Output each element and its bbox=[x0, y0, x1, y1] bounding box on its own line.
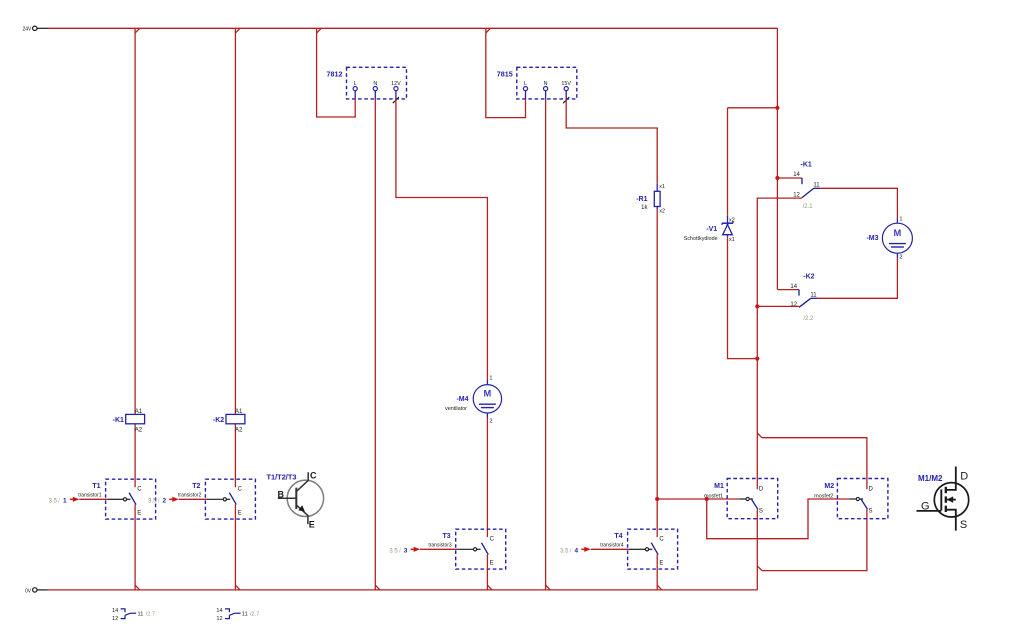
svg-text:A2: A2 bbox=[235, 427, 243, 434]
wire K1 pin11 to motor M3 top bbox=[821, 188, 898, 219]
svg-text:3: 3 bbox=[404, 548, 408, 555]
svg-text:C: C bbox=[238, 487, 243, 493]
node gate tee bbox=[705, 497, 709, 501]
svg-text:12: 12 bbox=[112, 616, 118, 622]
svg-text:11: 11 bbox=[813, 182, 820, 188]
svg-text:Schottkydiode: Schottkydiode bbox=[684, 236, 718, 242]
svg-text:2: 2 bbox=[899, 255, 902, 261]
svg-text:3.5: 3.5 bbox=[148, 498, 157, 504]
svg-text:M1: M1 bbox=[714, 483, 724, 490]
svg-text:T1/T2/T3: T1/T2/T3 bbox=[267, 473, 297, 482]
svg-text:1k: 1k bbox=[641, 205, 648, 211]
svg-text:14: 14 bbox=[793, 172, 800, 178]
svg-text:-K1: -K1 bbox=[801, 161, 812, 168]
motor M3 bbox=[866, 217, 912, 261]
wire V1 bottom to drain column bbox=[728, 236, 760, 360]
svg-text:E: E bbox=[309, 520, 315, 530]
svg-text:C: C bbox=[310, 470, 317, 480]
wire 24V to 7815 L input bbox=[486, 28, 526, 117]
motor M4 ventilator bbox=[445, 376, 502, 425]
node 24V supply terminal bbox=[23, 26, 48, 33]
contact K1 changeover bbox=[775, 161, 820, 210]
wire K1 pin12 to drain column bbox=[757, 198, 802, 306]
svg-text:transistor3: transistor3 bbox=[428, 542, 452, 548]
svg-text:D: D bbox=[869, 487, 874, 493]
svg-text:3.5: 3.5 bbox=[389, 548, 398, 554]
svg-text:14: 14 bbox=[112, 608, 118, 614]
wire 7815 N to 0V bbox=[546, 99, 551, 590]
svg-text:E: E bbox=[238, 511, 242, 517]
wire M4 to T3 collector bbox=[486, 417, 488, 537]
svg-text:T2: T2 bbox=[192, 483, 200, 490]
svg-text:/2.7: /2.7 bbox=[250, 611, 259, 617]
svg-text:S: S bbox=[759, 509, 763, 515]
voltage regulator U7812 bbox=[327, 67, 407, 103]
svg-text:E: E bbox=[137, 511, 141, 517]
svg-text:A1: A1 bbox=[135, 408, 143, 415]
wire R1 to mosfet gates node bbox=[656, 209, 658, 537]
svg-text:transistor2: transistor2 bbox=[178, 492, 202, 498]
wire branch K2-coil column bbox=[235, 28, 240, 590]
svg-text:C: C bbox=[137, 487, 142, 493]
svg-text:/2.7: /2.7 bbox=[146, 611, 155, 617]
svg-text:D: D bbox=[960, 471, 968, 483]
wire 24V top rail bbox=[48, 27, 778, 29]
svg-text:A2: A2 bbox=[135, 427, 143, 434]
svg-text:C: C bbox=[659, 537, 664, 543]
svg-text:/2.2: /2.2 bbox=[803, 316, 814, 322]
svg-text:S: S bbox=[869, 509, 873, 515]
wire to diode V1 top bbox=[728, 106, 780, 110]
svg-text:1: 1 bbox=[489, 376, 492, 382]
svg-text:11: 11 bbox=[810, 292, 817, 298]
contact K1 aux cross-reference bbox=[112, 608, 155, 622]
transistor T4 bbox=[560, 529, 678, 569]
wire branch K1-coil column bbox=[135, 28, 140, 590]
svg-text:-R1: -R1 bbox=[636, 196, 647, 203]
svg-text:D: D bbox=[759, 487, 764, 493]
wire T4 emitter to 0V bbox=[657, 554, 662, 590]
svg-text:24V: 24V bbox=[23, 27, 33, 33]
svg-text:-V1: -V1 bbox=[706, 226, 717, 233]
svg-text:/2.1: /2.1 bbox=[803, 204, 814, 210]
svg-text:x1: x1 bbox=[729, 237, 735, 243]
svg-text:M: M bbox=[894, 228, 902, 238]
svg-text:T3: T3 bbox=[443, 533, 451, 540]
mosfet legend M1/M2 pinout bbox=[917, 467, 969, 532]
svg-text:7812: 7812 bbox=[327, 70, 343, 79]
svg-text:3.5: 3.5 bbox=[560, 548, 569, 554]
wire 7812 12V output to M4 branch bbox=[396, 99, 488, 380]
svg-text:4: 4 bbox=[575, 548, 579, 555]
wire T3 emitter to 0V bbox=[487, 554, 492, 590]
svg-text:T4: T4 bbox=[614, 533, 622, 540]
svg-text:12: 12 bbox=[790, 302, 797, 308]
svg-text:0V: 0V bbox=[25, 588, 32, 594]
contact K2 aux cross-reference bbox=[216, 608, 259, 622]
svg-text:1: 1 bbox=[899, 217, 902, 223]
svg-text:11: 11 bbox=[138, 612, 144, 618]
wire 7815 15V output to R1 bbox=[566, 99, 657, 184]
svg-text:x2: x2 bbox=[729, 218, 735, 224]
transistor legend T1/T2/T3 pinout bbox=[267, 470, 324, 529]
wire M3 bottom to K2 pin11 bbox=[818, 258, 898, 299]
svg-text:-M4: -M4 bbox=[456, 396, 468, 403]
voltage regulator U7815 bbox=[497, 67, 577, 103]
wire M1 source to 0V end bbox=[757, 509, 867, 590]
svg-text:E: E bbox=[490, 561, 494, 567]
svg-text:M2: M2 bbox=[824, 483, 834, 490]
svg-text:S: S bbox=[960, 519, 967, 531]
transistor T2 bbox=[148, 479, 255, 519]
svg-text:-M3: -M3 bbox=[866, 235, 878, 242]
svg-text:C: C bbox=[490, 537, 495, 543]
svg-text:x1: x1 bbox=[659, 184, 665, 190]
svg-text:-K2: -K2 bbox=[213, 417, 224, 424]
wire K2 pin12 junction bbox=[755, 304, 799, 308]
transistor T3 bbox=[389, 529, 505, 569]
svg-text:E: E bbox=[659, 561, 663, 567]
svg-text:11: 11 bbox=[242, 612, 248, 618]
mosfet M1 bbox=[704, 479, 778, 519]
wire 7812 N to 0V bbox=[375, 99, 380, 590]
svg-text:1: 1 bbox=[63, 498, 67, 505]
wire 24V to 7812 L input bbox=[317, 28, 356, 117]
svg-text:3.5: 3.5 bbox=[49, 498, 58, 504]
svg-text:14: 14 bbox=[790, 284, 797, 290]
svg-text:12: 12 bbox=[216, 616, 222, 622]
wire gate loop to M2 gate bbox=[707, 499, 850, 539]
mosfet M2 bbox=[814, 479, 888, 519]
node 0V supply terminal bbox=[25, 588, 48, 595]
svg-text:ventilator: ventilator bbox=[445, 406, 467, 412]
wire gate node to M1 gate bbox=[657, 498, 739, 500]
diode V1 Schottkydiode bbox=[684, 108, 735, 243]
svg-text:-K1: -K1 bbox=[113, 417, 124, 424]
svg-text:2: 2 bbox=[163, 498, 167, 505]
svg-text:T1: T1 bbox=[92, 483, 100, 490]
wire 24V rail drop to contact column bbox=[776, 28, 778, 289]
svg-text:M1/M2: M1/M2 bbox=[918, 474, 943, 483]
relay coil K1 bbox=[113, 408, 145, 433]
svg-text:7815: 7815 bbox=[497, 70, 513, 79]
transistor T1 bbox=[49, 479, 156, 519]
svg-text:2: 2 bbox=[489, 419, 492, 425]
wire drain column to M1 and M2 bbox=[757, 306, 867, 489]
svg-text:M: M bbox=[484, 389, 492, 399]
svg-text:x2: x2 bbox=[659, 209, 665, 215]
resistor R1 1k bbox=[636, 184, 665, 215]
svg-text:A1: A1 bbox=[235, 408, 243, 415]
node gate junction on R1 column bbox=[655, 497, 659, 501]
svg-text:14: 14 bbox=[216, 608, 222, 614]
svg-text:G: G bbox=[921, 500, 930, 512]
wire 0V bottom rail bbox=[48, 589, 758, 591]
relay coil K2 bbox=[213, 408, 245, 433]
svg-text:transistor1: transistor1 bbox=[78, 492, 102, 498]
svg-text:-K2: -K2 bbox=[803, 274, 814, 281]
contact K2 changeover bbox=[777, 274, 817, 323]
svg-text:B: B bbox=[278, 489, 285, 499]
svg-text:transistor4: transistor4 bbox=[600, 542, 624, 548]
